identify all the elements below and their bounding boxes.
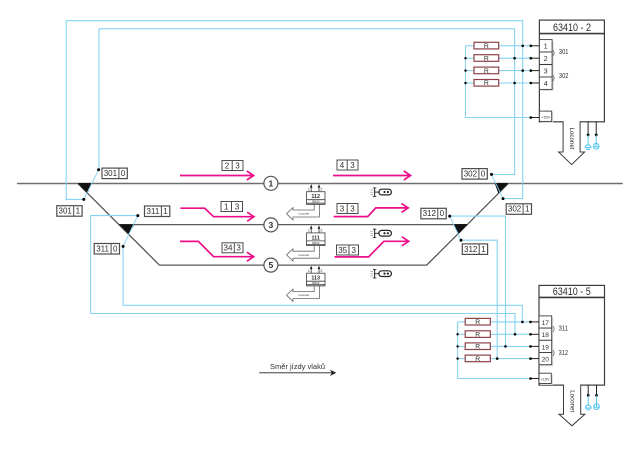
svg-text:R: R bbox=[475, 344, 480, 351]
svg-text:3: 3 bbox=[350, 161, 355, 170]
svg-text:1: 1 bbox=[308, 229, 310, 233]
wire pin stubs (top module) bbox=[530, 45, 540, 119]
wire +15V bus (top module) bbox=[464, 46, 531, 118]
svg-text:1: 1 bbox=[269, 178, 274, 188]
node track circle 3 bbox=[264, 218, 278, 232]
svg-text:302: 302 bbox=[508, 205, 522, 214]
svg-text:): ) bbox=[553, 74, 555, 81]
svg-text:311: 311 bbox=[559, 323, 569, 332]
svg-text:311: 311 bbox=[96, 244, 109, 253]
wire +15V bus (bottom module) bbox=[456, 322, 530, 379]
route arrow 4|3 bbox=[333, 160, 411, 180]
signal S3 on track 5 bbox=[370, 270, 391, 279]
svg-text:2: 2 bbox=[320, 229, 322, 233]
module 63410-5 lamp output 2 bbox=[594, 385, 600, 409]
module 63410-5 pin 17 bbox=[539, 316, 553, 330]
svg-text:1: 1 bbox=[76, 207, 81, 216]
route arrow 35|3 bbox=[335, 237, 409, 257]
wire net B: 301|0 to pins 2,4 and 302|0 bbox=[99, 29, 515, 175]
svg-text:18: 18 bbox=[542, 332, 550, 339]
svg-text:3: 3 bbox=[351, 246, 356, 255]
svg-text:R: R bbox=[484, 68, 489, 75]
detector module 112 bbox=[287, 184, 326, 220]
module 63410-2 +15V pin bbox=[539, 111, 553, 123]
resistor R1 (top) bbox=[466, 42, 531, 50]
route arrow 1|3 bbox=[180, 202, 254, 222]
direction of travel label bbox=[259, 362, 336, 376]
svg-text:Loconet: Loconet bbox=[568, 128, 575, 150]
svg-text:35: 35 bbox=[338, 246, 347, 255]
wire net D: 311|1 to pin 18 bbox=[91, 216, 515, 335]
svg-text:3: 3 bbox=[350, 204, 355, 213]
turnout 312 bbox=[448, 215, 468, 242]
svg-text:2: 2 bbox=[320, 269, 322, 273]
svg-text:1: 1 bbox=[308, 269, 310, 273]
svg-text:R: R bbox=[475, 332, 480, 339]
resistor R5 (bottom) bbox=[458, 318, 531, 326]
svg-text:19: 19 bbox=[542, 344, 550, 351]
svg-text:4: 4 bbox=[340, 161, 345, 170]
svg-text:20: 20 bbox=[542, 357, 550, 364]
svg-text:0: 0 bbox=[113, 244, 118, 253]
svg-text:R: R bbox=[475, 319, 480, 326]
wire junction dots nets C/D/E/F (bottom module) bbox=[496, 321, 524, 360]
module 63410-2 loconet arrow bbox=[559, 121, 585, 165]
node 302|0 label bbox=[462, 169, 487, 180]
svg-text:302: 302 bbox=[559, 71, 569, 80]
track 1 main line bbox=[17, 183, 623, 185]
svg-text:312: 312 bbox=[559, 348, 569, 357]
svg-text:+15V: +15V bbox=[541, 378, 550, 382]
module 63410-2 group labels 301/302 bbox=[553, 47, 569, 81]
svg-text:301: 301 bbox=[59, 207, 73, 216]
svg-text:+15V: +15V bbox=[541, 116, 550, 120]
route arrow 34|3 bbox=[180, 241, 254, 261]
module 63410-2 pin 4 bbox=[539, 77, 553, 91]
svg-text:4: 4 bbox=[544, 81, 548, 88]
module 63410-5 group labels 311/312 bbox=[553, 323, 569, 357]
svg-text:0: 0 bbox=[121, 169, 126, 178]
svg-text:68610: 68610 bbox=[312, 200, 320, 204]
svg-text:301: 301 bbox=[559, 47, 569, 56]
detector module 111 bbox=[287, 225, 326, 261]
wire net F: 312|1 to pin 20 bbox=[461, 240, 497, 358]
svg-text:302: 302 bbox=[464, 170, 478, 179]
svg-text:Loconet: Loconet bbox=[298, 293, 309, 297]
wire net A: 301|1 to pins 1,3 and 302|1 bbox=[66, 21, 523, 200]
wire diagonal left (turnout 301 to track 5) bbox=[78, 184, 160, 266]
route arrow 2|3 bbox=[180, 161, 254, 181]
svg-text:R: R bbox=[484, 80, 489, 87]
svg-text:34: 34 bbox=[224, 244, 233, 253]
svg-text:301: 301 bbox=[104, 169, 118, 178]
module 63410-5 +15V pin bbox=[539, 373, 553, 385]
node track circle 5 bbox=[264, 258, 278, 272]
svg-text:3: 3 bbox=[544, 69, 548, 76]
module 63410-2 pin 3 bbox=[539, 65, 553, 79]
route arrow 3|3 bbox=[334, 203, 409, 216]
svg-text:Směr jízdy vlaků: Směr jízdy vlaků bbox=[270, 362, 325, 371]
wire net C: 311|0 to pin 17 bbox=[123, 246, 522, 322]
module 63410-5 loconet arrow bbox=[559, 384, 585, 426]
svg-text:1: 1 bbox=[481, 245, 486, 254]
signal S1 on track 1 bbox=[370, 188, 391, 197]
svg-text:311: 311 bbox=[147, 207, 160, 216]
node track circle 1 bbox=[264, 176, 278, 190]
svg-text:312: 312 bbox=[464, 245, 478, 254]
svg-text:Loconet: Loconet bbox=[569, 390, 576, 412]
node 312|1 label bbox=[462, 244, 487, 255]
svg-text:): ) bbox=[553, 350, 555, 357]
svg-text:3: 3 bbox=[235, 161, 240, 170]
svg-text:63410 - 2: 63410 - 2 bbox=[553, 22, 591, 34]
module 63410-5 body bbox=[539, 285, 605, 385]
svg-text:68610: 68610 bbox=[312, 241, 320, 245]
svg-text:1: 1 bbox=[525, 205, 530, 214]
svg-text:68610: 68610 bbox=[312, 281, 320, 285]
svg-text:R: R bbox=[484, 43, 489, 50]
svg-text:1: 1 bbox=[308, 187, 310, 191]
wire diagonal right (turnout 302 to track 5) bbox=[427, 184, 509, 266]
svg-text:1: 1 bbox=[544, 44, 548, 51]
svg-text:Loconet: Loconet bbox=[298, 253, 309, 257]
svg-text:0: 0 bbox=[481, 170, 486, 179]
detector module 113 bbox=[287, 266, 326, 302]
svg-text:0: 0 bbox=[440, 209, 445, 218]
node 301|0 label bbox=[102, 168, 127, 179]
svg-text:63410 - 5: 63410 - 5 bbox=[553, 286, 591, 298]
signal S2 on track 3 bbox=[370, 229, 391, 238]
resistor R3 (top) bbox=[466, 67, 531, 75]
node 311|1 label bbox=[145, 206, 170, 217]
svg-text:3: 3 bbox=[269, 220, 274, 230]
module 63410-2 body bbox=[539, 20, 604, 122]
module 63410-2 lamp output 2 bbox=[593, 122, 599, 149]
svg-text:1: 1 bbox=[224, 202, 229, 211]
turnout 302 bbox=[490, 173, 508, 200]
module 63410-2 lamp output 1 bbox=[585, 122, 592, 150]
turnout 311 bbox=[119, 214, 139, 248]
wire net E: 312|0 to pin 19 bbox=[450, 216, 506, 346]
module 63410-5 pin 18 bbox=[539, 328, 553, 342]
node 311|0 label bbox=[94, 244, 119, 255]
svg-text:): ) bbox=[553, 325, 555, 332]
svg-text:1: 1 bbox=[163, 207, 168, 216]
module 63410-5 lamp output 1 bbox=[585, 385, 592, 410]
node 312|0 label bbox=[421, 208, 446, 219]
svg-text:5: 5 bbox=[269, 260, 274, 270]
turnout 301 bbox=[78, 168, 100, 201]
resistor R7 (bottom) bbox=[458, 343, 531, 351]
wire junction dots net A/B (top module) bbox=[513, 45, 524, 85]
svg-text:Loconet: Loconet bbox=[298, 212, 309, 216]
svg-text:3: 3 bbox=[340, 204, 345, 213]
svg-text:R: R bbox=[475, 356, 480, 363]
svg-text:2: 2 bbox=[544, 56, 548, 63]
resistor R4 (top) bbox=[466, 80, 531, 88]
svg-text:2: 2 bbox=[225, 161, 230, 170]
module 63410-2 pin 1 bbox=[539, 40, 553, 54]
svg-text:3: 3 bbox=[235, 202, 240, 211]
svg-text:): ) bbox=[553, 49, 555, 56]
svg-text:312: 312 bbox=[423, 209, 437, 218]
svg-text:17: 17 bbox=[542, 320, 550, 327]
svg-text:R: R bbox=[484, 55, 489, 62]
resistor R8 (bottom) bbox=[458, 355, 531, 363]
module 63410-5 pin 19 bbox=[539, 340, 553, 354]
module 63410-5 pin 20 bbox=[539, 353, 553, 367]
svg-text:2: 2 bbox=[320, 187, 322, 191]
resistor R2 (top) bbox=[466, 55, 531, 63]
svg-text:3: 3 bbox=[236, 244, 241, 253]
module 63410-2 pin 2 bbox=[539, 52, 553, 66]
resistor R6 (bottom) bbox=[458, 331, 531, 339]
wire pin stubs (bottom module) bbox=[529, 321, 539, 380]
track 3 bbox=[119, 224, 468, 226]
track 5 bbox=[159, 264, 427, 266]
node 302|1 label bbox=[506, 204, 531, 215]
node 301|1 label bbox=[57, 206, 82, 217]
